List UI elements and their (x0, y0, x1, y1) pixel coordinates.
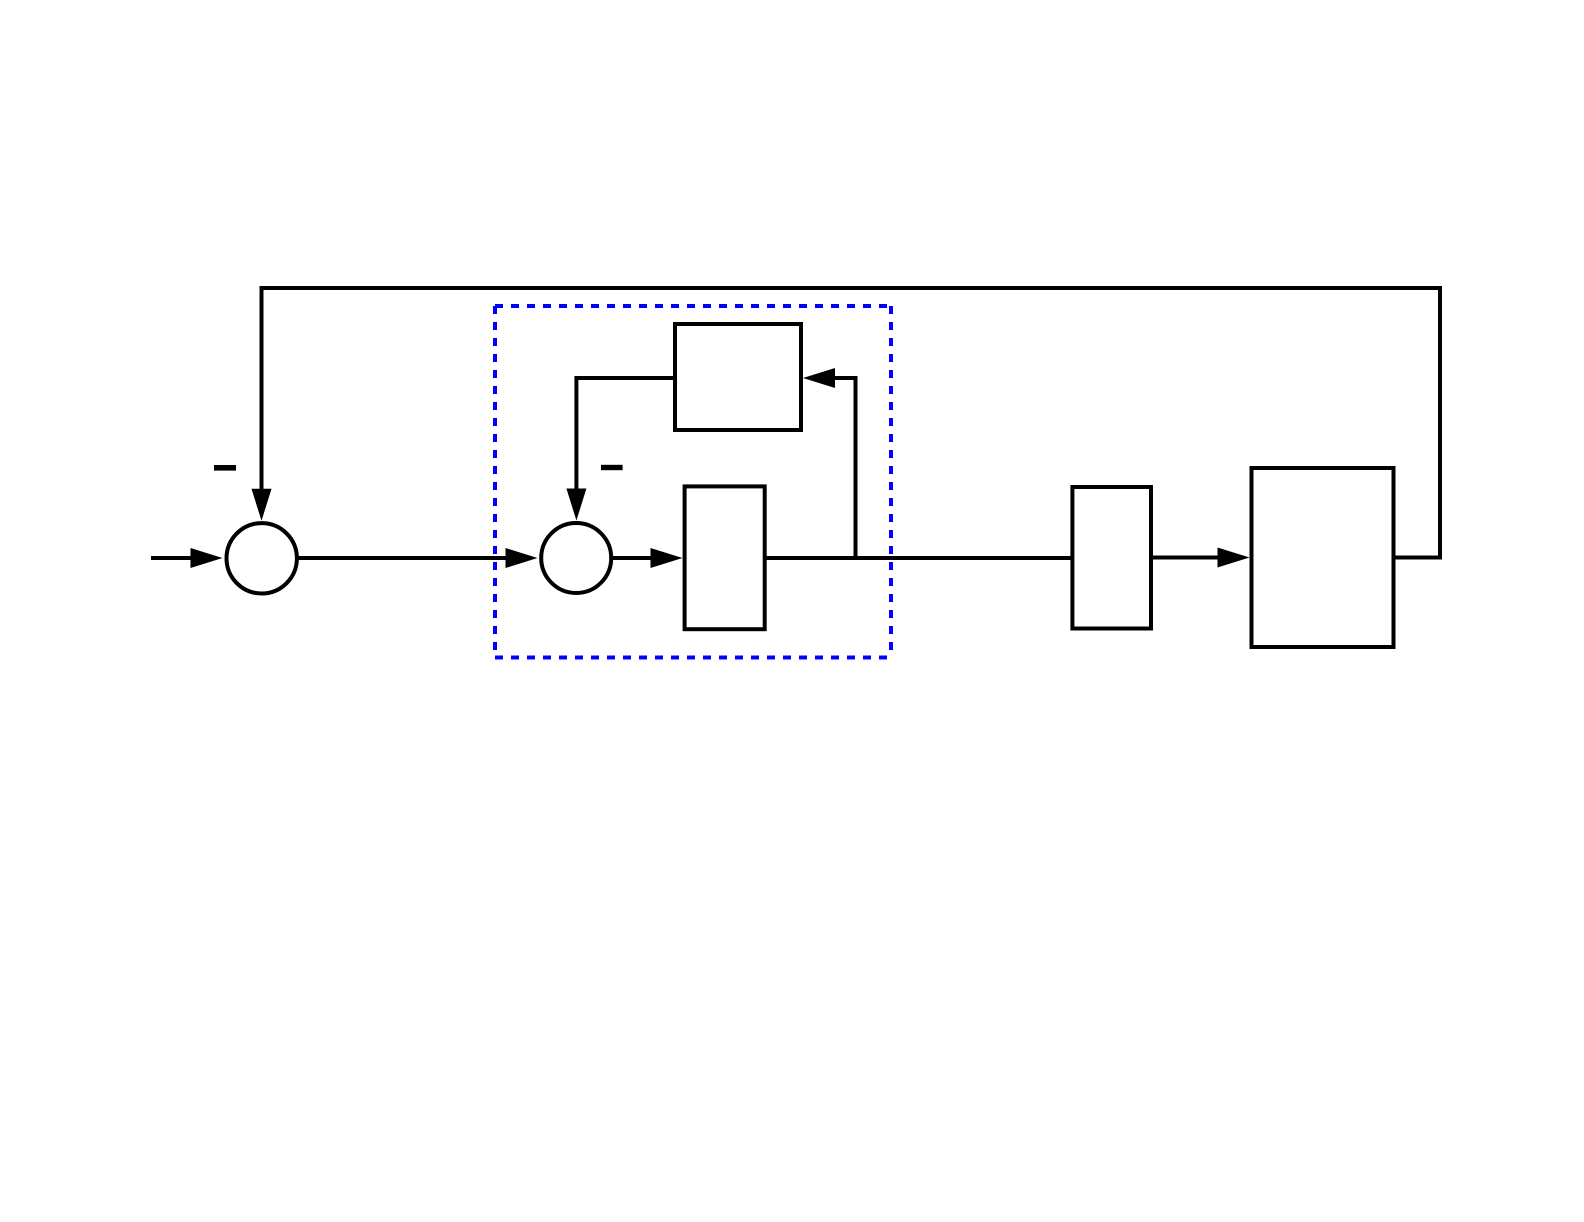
arrowhead into block G1 (651, 548, 683, 568)
arrowhead into summing junction S1 (191, 548, 223, 568)
minus sign at S2 (601, 465, 623, 470)
wire: G1 output line to block C (765, 556, 1073, 560)
dashed subsystem boundary (inner loop) (495, 306, 891, 658)
wire: input line into summing junction S1 (151, 556, 194, 560)
arrowhead of inner feedback into S2 (566, 489, 586, 521)
arrowhead into block H1 (803, 368, 835, 388)
minus sign at S1 (214, 465, 236, 471)
summing junction S2 (541, 523, 611, 593)
block C (middle block) (1072, 487, 1151, 629)
arrowhead into summing junction S2 (506, 548, 538, 568)
wire: S2 to block G1 (612, 556, 654, 560)
block H1 (inner feedback block) (675, 324, 801, 430)
wire: inner feedback from block H1 down into S2 (576, 378, 675, 492)
arrowhead into plant G (1218, 548, 1250, 568)
wire: outer feedback path (output up, across top, down into S1) (262, 288, 1441, 558)
wire: S1 to summing junction S2 (298, 556, 510, 560)
block G1 (inner forward block) (685, 486, 765, 629)
plant G (right block) (1252, 468, 1394, 647)
wire: inner feedback tap up to block H1 (834, 378, 856, 558)
wire: block C to plant G (1151, 556, 1221, 560)
summing junction S1 (227, 523, 297, 593)
arrowhead of outer feedback into S1 (252, 489, 272, 521)
